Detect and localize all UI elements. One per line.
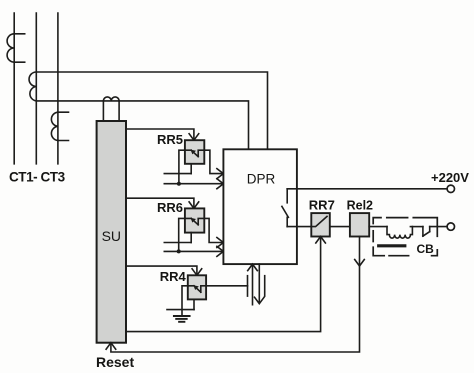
arrow into DPR — [217, 238, 224, 248]
wire SU to RR5 top — [126, 129, 194, 139]
contact RR7 — [311, 213, 330, 236]
RR4 left bracket to ground — [182, 286, 188, 316]
arrow into RR7 — [316, 237, 326, 244]
DPR block — [223, 149, 297, 264]
CB bar — [379, 244, 405, 247]
arrow into DPR — [217, 179, 224, 189]
wire Rel2 to reset — [111, 237, 360, 353]
wire contact to RR7 — [287, 226, 311, 228]
RR5 bottom stub — [190, 164, 192, 174]
SU input coil — [103, 97, 119, 121]
arrow into RR6 — [189, 202, 199, 209]
CB enclosure dashed — [373, 218, 437, 256]
DPR port down arrow — [255, 264, 265, 304]
RR5 right bracket to DPR — [204, 150, 222, 173]
wire CT2 secondary bottom to DPR — [36, 101, 248, 149]
terminal output — [447, 223, 454, 230]
wire CB to terminal — [430, 226, 447, 228]
junction dot — [177, 249, 181, 253]
wire RR6 lower to DPR — [164, 250, 222, 252]
RR4 ground wire — [167, 309, 194, 311]
RR5 left bracket — [179, 150, 185, 184]
arrow into DPR — [217, 246, 224, 256]
DPR output contact — [282, 189, 289, 227]
phase line 3 — [57, 13, 59, 164]
svg-text:SU: SU — [102, 228, 121, 244]
DPR port left bar — [247, 276, 249, 296]
svg-text:Rel2: Rel2 — [347, 198, 373, 212]
relay Rel2 — [350, 213, 369, 236]
terminal +220V — [447, 185, 454, 192]
RR5 inner symbol — [185, 150, 204, 156]
svg-text:Reset: Reset — [96, 354, 134, 370]
current transformer CT1 — [7, 34, 25, 62]
svg-text:RR4: RR4 — [160, 269, 187, 284]
current transformer CT3 — [51, 112, 68, 140]
svg-text:RR7: RR7 — [309, 197, 335, 212]
wire SU to RR7 bottom — [126, 238, 321, 331]
RR6 left bracket — [179, 218, 185, 251]
wire RR5 lower to DPR — [164, 183, 222, 185]
phase line 1 — [13, 13, 15, 164]
svg-text:DPR: DPR — [247, 171, 276, 186]
RR4 inner symbol — [188, 286, 206, 292]
wire RR5 input upper — [164, 173, 191, 175]
wire CT2 secondary top to DPR — [36, 72, 267, 149]
arrow into RR4 — [192, 269, 202, 276]
svg-text:CT1- CT3: CT1- CT3 — [9, 169, 66, 184]
wire RR4 to DPR port — [206, 285, 247, 287]
current transformer CT2 — [29, 72, 36, 101]
RR6 inner symbol — [185, 218, 204, 224]
arrester RR5 — [185, 140, 204, 164]
arrow into DPR — [217, 169, 224, 179]
RR4 bottom stub — [193, 299, 195, 309]
wire SU to RR4 top — [126, 266, 197, 274]
DPR port up arrow — [248, 264, 258, 305]
svg-text:+220V: +220V — [431, 170, 469, 185]
svg-text:CB: CB — [417, 242, 435, 256]
wire +220V — [287, 188, 447, 190]
CB contact — [423, 227, 430, 237]
RR6 bottom stub — [190, 233, 192, 243]
arrow down on Rel2 wire — [355, 260, 365, 267]
wire Rel2 to CB coil — [369, 226, 387, 228]
junction dot — [177, 182, 181, 186]
ground — [174, 316, 190, 322]
SU block — [97, 121, 126, 343]
CB trip coil — [387, 227, 412, 239]
RR6 right bracket to DPR — [204, 218, 222, 242]
svg-text:RR5: RR5 — [157, 132, 183, 147]
wire coil to CB contact — [410, 226, 423, 228]
arrow into SU bottom — [106, 343, 116, 350]
wire SU to RR6 top — [126, 198, 194, 207]
wire RR7 to Rel2 — [330, 226, 350, 228]
arrester RR6 — [185, 208, 204, 232]
DPR port right bar — [264, 276, 266, 296]
svg-text:RR6: RR6 — [157, 200, 183, 215]
arrester RR4 — [188, 275, 206, 299]
phase line 2 — [35, 13, 37, 164]
wire RR6 input upper — [164, 242, 191, 244]
arrow into RR5 — [189, 134, 199, 141]
RR7 blade — [311, 216, 327, 226]
